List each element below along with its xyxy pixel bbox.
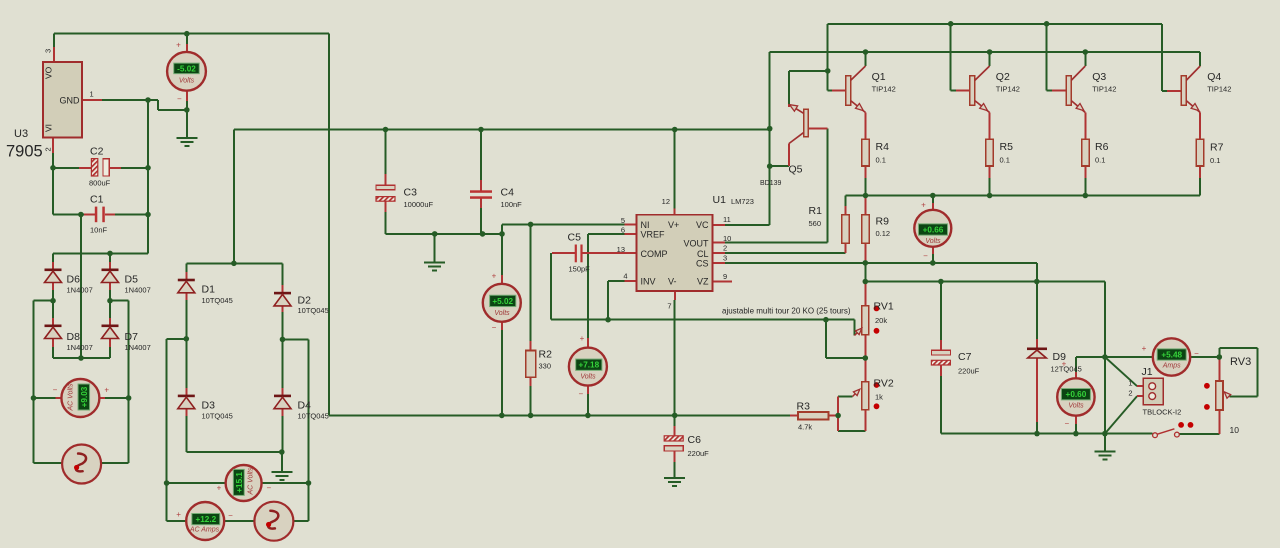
svg-text:VREF: VREF xyxy=(641,229,666,239)
svg-text:0.1: 0.1 xyxy=(1210,156,1220,165)
svg-text:Volts: Volts xyxy=(580,374,596,381)
svg-text:10nF: 10nF xyxy=(90,226,108,235)
svg-text:R9: R9 xyxy=(876,216,890,228)
svg-text:R6: R6 xyxy=(1095,141,1109,153)
svg-text:TIP142: TIP142 xyxy=(1207,85,1231,94)
svg-text:ajustable multi tour 20 KO (25: ajustable multi tour 20 KO (25 tours) xyxy=(722,307,851,316)
svg-text:2: 2 xyxy=(1128,389,1132,398)
svg-text:R2: R2 xyxy=(539,349,553,361)
svg-text:AC Volts: AC Volts xyxy=(67,383,74,411)
svg-text:AC Volts: AC Volts xyxy=(248,467,255,495)
svg-text:13: 13 xyxy=(617,245,625,254)
svg-text:+: + xyxy=(921,201,926,210)
svg-text:220uF: 220uF xyxy=(958,367,980,376)
svg-text:AC Amps: AC Amps xyxy=(189,527,220,534)
svg-text:−: − xyxy=(578,390,583,399)
svg-text:0.1: 0.1 xyxy=(1095,156,1105,165)
svg-text:2: 2 xyxy=(44,147,53,151)
svg-text:220uF: 220uF xyxy=(688,449,710,458)
svg-text:−: − xyxy=(53,386,58,395)
svg-text:1: 1 xyxy=(1128,379,1132,388)
svg-text:+0.66: +0.66 xyxy=(923,226,944,235)
svg-text:−: − xyxy=(923,252,928,261)
svg-text:RV2: RV2 xyxy=(874,378,894,390)
svg-text:+: + xyxy=(492,272,497,281)
svg-text:D4: D4 xyxy=(298,400,312,412)
svg-text:1N4007: 1N4007 xyxy=(125,343,151,352)
svg-text:1N4007: 1N4007 xyxy=(67,286,93,295)
svg-text:TBLOCK-I2: TBLOCK-I2 xyxy=(1143,408,1182,417)
svg-text:GND: GND xyxy=(60,96,81,106)
svg-text:TIP142: TIP142 xyxy=(996,85,1020,94)
svg-text:+: + xyxy=(580,334,585,343)
svg-text:C4: C4 xyxy=(501,187,515,199)
svg-text:+: + xyxy=(104,386,109,395)
svg-text:7905: 7905 xyxy=(6,143,43,161)
svg-text:C5: C5 xyxy=(568,232,582,244)
svg-text:4: 4 xyxy=(623,272,627,281)
svg-text:R5: R5 xyxy=(1000,141,1014,153)
svg-text:+7.18: +7.18 xyxy=(578,361,599,370)
svg-text:Q4: Q4 xyxy=(1207,71,1221,83)
svg-text:7: 7 xyxy=(667,302,671,311)
svg-text:6: 6 xyxy=(621,226,625,235)
svg-text:D6: D6 xyxy=(67,274,81,286)
svg-text:VOUT: VOUT xyxy=(683,238,709,248)
svg-text:Volts: Volts xyxy=(494,310,510,317)
svg-text:1k: 1k xyxy=(875,393,883,402)
svg-text:+12.2: +12.2 xyxy=(195,515,216,524)
svg-text:+0.60: +0.60 xyxy=(1066,390,1087,399)
svg-text:U1: U1 xyxy=(713,194,727,206)
svg-text:+: + xyxy=(176,510,181,519)
svg-text:10000uF: 10000uF xyxy=(404,200,434,209)
svg-text:Amps: Amps xyxy=(1162,363,1181,370)
svg-text:−: − xyxy=(492,323,497,332)
svg-text:150pF: 150pF xyxy=(569,265,591,274)
svg-text:VC: VC xyxy=(696,220,709,230)
svg-text:TIP142: TIP142 xyxy=(872,85,896,94)
svg-text:V-: V- xyxy=(668,276,677,286)
svg-text:D3: D3 xyxy=(202,400,216,412)
svg-text:+: + xyxy=(1142,344,1147,353)
svg-text:Volts: Volts xyxy=(179,78,195,85)
svg-text:−: − xyxy=(1194,349,1199,358)
svg-text:Volts: Volts xyxy=(1068,403,1084,410)
svg-text:C2: C2 xyxy=(90,146,104,158)
svg-text:Volts: Volts xyxy=(925,238,941,245)
svg-text:12: 12 xyxy=(662,197,670,206)
svg-text:+: + xyxy=(217,484,222,493)
svg-text:VZ: VZ xyxy=(697,276,709,286)
svg-text:3: 3 xyxy=(723,253,727,262)
svg-text:9: 9 xyxy=(723,272,727,281)
svg-text:0.1: 0.1 xyxy=(876,156,886,165)
svg-text:+15.1: +15.1 xyxy=(235,472,244,493)
svg-text:VI: VI xyxy=(44,124,54,132)
svg-text:R7: R7 xyxy=(1210,142,1224,154)
svg-text:CS: CS xyxy=(696,259,709,269)
svg-text:10TQ045: 10TQ045 xyxy=(202,411,233,420)
svg-text:1N4007: 1N4007 xyxy=(67,343,93,352)
svg-text:INV: INV xyxy=(641,276,656,286)
svg-text:800uF: 800uF xyxy=(89,179,111,188)
svg-text:RV3: RV3 xyxy=(1230,356,1251,368)
svg-text:RV1: RV1 xyxy=(874,301,894,313)
svg-text:R4: R4 xyxy=(876,141,890,153)
svg-text:LM723: LM723 xyxy=(731,197,754,206)
svg-text:4.7k: 4.7k xyxy=(798,423,812,432)
svg-text:330: 330 xyxy=(539,362,552,371)
svg-text:10: 10 xyxy=(723,234,731,243)
svg-text:20k: 20k xyxy=(875,316,887,325)
svg-text:+: + xyxy=(1062,360,1067,369)
svg-text:+5.48: +5.48 xyxy=(1161,351,1182,360)
svg-text:+: + xyxy=(176,41,181,50)
svg-text:U3: U3 xyxy=(14,128,28,140)
svg-text:1: 1 xyxy=(90,90,94,99)
svg-text:R1: R1 xyxy=(809,205,823,217)
svg-text:V+: V+ xyxy=(668,220,679,230)
svg-text:R3: R3 xyxy=(797,401,811,413)
svg-text:-5.02: -5.02 xyxy=(177,64,196,73)
svg-text:Q3: Q3 xyxy=(1092,71,1106,83)
svg-text:10TQ045: 10TQ045 xyxy=(298,306,329,315)
svg-text:C7: C7 xyxy=(958,351,972,363)
svg-text:D8: D8 xyxy=(67,331,81,343)
svg-text:−: − xyxy=(1064,419,1069,428)
svg-text:C3: C3 xyxy=(404,187,418,199)
svg-text:TIP142: TIP142 xyxy=(1092,85,1116,94)
svg-text:100nF: 100nF xyxy=(501,200,523,209)
svg-text:0.12: 0.12 xyxy=(876,229,891,238)
svg-text:+5.02: +5.02 xyxy=(492,297,513,306)
svg-text:−: − xyxy=(177,95,182,104)
svg-text:0.1: 0.1 xyxy=(1000,156,1010,165)
svg-text:10TQ045: 10TQ045 xyxy=(202,296,233,305)
svg-text:Q1: Q1 xyxy=(872,71,886,83)
svg-text:3: 3 xyxy=(44,49,53,53)
svg-text:C6: C6 xyxy=(688,434,702,446)
svg-text:1N4007: 1N4007 xyxy=(125,286,151,295)
svg-text:D1: D1 xyxy=(202,284,216,296)
svg-text:560: 560 xyxy=(809,219,822,228)
svg-text:BD139: BD139 xyxy=(760,180,782,187)
svg-text:5: 5 xyxy=(621,216,625,225)
svg-text:VO: VO xyxy=(44,66,54,79)
svg-text:11: 11 xyxy=(723,215,731,224)
svg-text:Q2: Q2 xyxy=(996,71,1010,83)
svg-text:−: − xyxy=(266,484,271,493)
svg-text:D2: D2 xyxy=(298,295,312,307)
svg-text:+9.03: +9.03 xyxy=(80,386,89,407)
svg-text:D7: D7 xyxy=(125,331,139,343)
svg-text:D5: D5 xyxy=(125,274,139,286)
svg-text:10: 10 xyxy=(1230,425,1240,435)
svg-text:COMP: COMP xyxy=(641,249,668,259)
svg-text:J1: J1 xyxy=(1142,366,1153,378)
svg-text:10TQ045: 10TQ045 xyxy=(298,411,329,420)
svg-text:C1: C1 xyxy=(90,194,104,206)
svg-text:CL: CL xyxy=(697,249,709,259)
svg-text:Q5: Q5 xyxy=(789,164,803,176)
svg-text:−: − xyxy=(228,511,233,520)
svg-text:2: 2 xyxy=(723,244,727,253)
